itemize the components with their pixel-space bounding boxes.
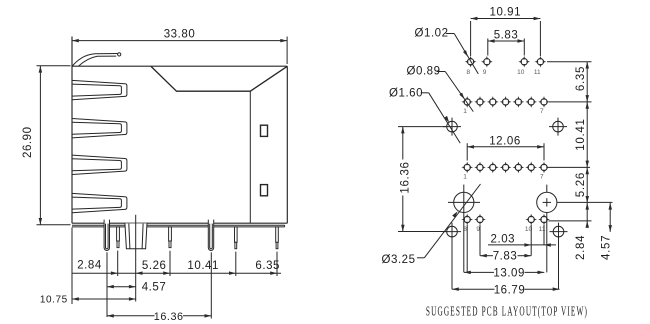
dim 4.57 (107, 285, 136, 289)
svg-text:16.79: 16.79 (494, 284, 526, 296)
side view: contact pin 2 (169, 227, 172, 248)
svg-text:Ø0.89: Ø0.89 (407, 66, 441, 78)
pcb: mounting hole O3.25 right with centerlines (537, 185, 613, 273)
extension lines below pins (72, 228, 277, 319)
pcb bottom extension lines (452, 225, 559, 290)
leader O1.60 to shield hole (421, 93, 461, 143)
svg-text:5.26: 5.26 (575, 172, 587, 197)
side view: contact slot 3 (72, 155, 127, 174)
side view: contact pin 1 (117, 227, 120, 248)
side view: contact slot 1 (72, 80, 127, 99)
svg-text:11: 11 (539, 226, 546, 233)
pcb: pin holes row 8-11 top (465, 56, 546, 68)
side view: contact pin 3 (235, 227, 238, 249)
dim 13.09 (464, 271, 544, 275)
pcb: shield hole bottom-left (443, 223, 461, 241)
side view: contact slot 2 (72, 119, 127, 138)
dim 2.03 (488, 243, 556, 247)
svg-text:10.41: 10.41 (187, 260, 219, 272)
svg-text:2.03: 2.03 (491, 233, 516, 245)
svg-text:12.06: 12.06 (489, 136, 521, 148)
svg-text:26.90: 26.90 (22, 126, 34, 158)
side view: EMI shield rectangular hole 1 (261, 125, 268, 136)
side view: contact slot 4 (72, 193, 127, 212)
svg-text:4.57: 4.57 (142, 282, 167, 294)
svg-text:5.26: 5.26 (142, 260, 167, 272)
side view: EMI shield rectangular hole 2 (261, 185, 268, 196)
svg-text:Ø3.25: Ø3.25 (382, 254, 416, 266)
pcb: pin holes row 1-7 lower (461, 162, 549, 174)
leader O1.02 to hole 8 (446, 34, 479, 74)
side view: shield solder tab 1 (104, 220, 109, 251)
svg-text:1: 1 (463, 173, 467, 180)
svg-text:8: 8 (466, 69, 470, 76)
dim 4.57 right outer (609, 203, 613, 232)
pcb: labels 8 9 10 11 top (466, 69, 540, 76)
svg-text:6.35: 6.35 (575, 66, 587, 91)
dim 33.80 top (72, 37, 287, 65)
side view: latch spring (72, 53, 120, 66)
leader O3.25 to mounting hole (417, 184, 481, 258)
svg-text:5.83: 5.83 (494, 29, 519, 41)
pcb: pin holes row 1-7 upper (461, 96, 549, 108)
pcb: mounting hole O3.25 left with centerlines (448, 185, 480, 273)
svg-text:6.35: 6.35 (255, 260, 280, 272)
pcb: shield hole bottom-right (550, 223, 568, 241)
pcb: shield hole top-right (549, 118, 567, 136)
svg-text:11: 11 (534, 69, 541, 76)
svg-text:7.83: 7.83 (493, 251, 518, 263)
svg-text:4.57: 4.57 (601, 235, 613, 260)
side view: post centerline extension (135, 215, 137, 302)
svg-text:10.41: 10.41 (575, 118, 587, 150)
svg-text:SUGGESTED PCB LAYOUT(TOP VIEW): SUGGESTED PCB LAYOUT(TOP VIEW) (426, 304, 588, 319)
svg-text:Ø1.60: Ø1.60 (389, 88, 423, 100)
svg-text:10.91: 10.91 (490, 6, 522, 18)
side view: bottom mounting lip (72, 225, 285, 227)
svg-text:10.75: 10.75 (40, 295, 68, 306)
dim 16.36 pcb left (398, 127, 446, 232)
dim 16.79 (452, 287, 560, 291)
leader O0.89 to hole 1 (437, 72, 474, 112)
dim chain right: 6.35 / 10.41 / 5.26 / 2.84 (586, 62, 590, 228)
side view: shield solder tab 2 (208, 220, 213, 251)
side view: top rear notch (151, 66, 287, 91)
side view: connector body outline (72, 37, 287, 224)
dim 10.91 (471, 17, 541, 56)
svg-text:16.36: 16.36 (399, 161, 411, 193)
svg-text:13.09: 13.09 (493, 268, 525, 280)
dim 12.06 (467, 143, 544, 160)
dim 5.83 (488, 39, 525, 56)
side view: plastic post (125, 223, 147, 248)
svg-text:2.84: 2.84 (77, 259, 102, 271)
pcb: shield hole top-left (O1.60) (443, 118, 461, 136)
svg-text:7: 7 (540, 108, 544, 115)
side view: front/rear section divider (249, 91, 251, 223)
side view: contact pin 4 (276, 227, 279, 249)
svg-text:10: 10 (517, 69, 525, 76)
pcb: pin holes 8 9 10 11 bottom (461, 214, 549, 226)
svg-text:Ø1.02: Ø1.02 (415, 28, 449, 40)
pcb: labels 8 9 10 11 bottom (463, 226, 546, 233)
svg-text:9: 9 (483, 69, 487, 76)
svg-text:7: 7 (540, 173, 544, 180)
dim 10.75 (72, 297, 136, 301)
dim 16.36 bottom (107, 314, 211, 318)
dim 7.83 (480, 254, 531, 258)
svg-text:16.36: 16.36 (154, 311, 184, 323)
pcb right-side extension ticks (547, 62, 592, 221)
svg-text:1: 1 (463, 108, 467, 115)
svg-text:33.80: 33.80 (164, 29, 196, 41)
dim chain 2.84 / 5.26 / 10.41 / 6.35 (72, 271, 281, 275)
dim 26.90 left (37, 66, 71, 225)
svg-text:2.84: 2.84 (575, 235, 587, 260)
